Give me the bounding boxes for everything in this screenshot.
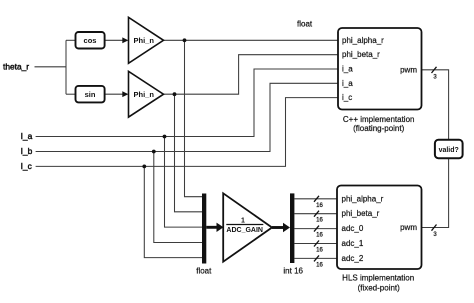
svg-text:valid?: valid? bbox=[439, 147, 459, 154]
wire riser I_a to bus bbox=[165, 137, 203, 228]
wire phi_alpha_r rail U1 out to C++ box bbox=[164, 39, 339, 41]
svg-text:i_a: i_a bbox=[342, 79, 353, 88]
svg-text:phi_alpha_r: phi_alpha_r bbox=[342, 194, 384, 203]
arrowhead into U1 bbox=[122, 37, 128, 43]
svg-text:I_a: I_a bbox=[21, 131, 33, 141]
block cos bbox=[76, 32, 105, 49]
svg-text:ADC_GAIN: ADC_GAIN bbox=[226, 227, 263, 234]
bus width slash C++ pwm bbox=[432, 67, 437, 73]
block sin bbox=[76, 86, 105, 103]
svg-text:Phi_n: Phi_n bbox=[134, 90, 155, 99]
bus width slash 16 wire5 bbox=[314, 255, 319, 261]
svg-text:phi_beta_r: phi_beta_r bbox=[342, 209, 380, 218]
svg-text:1: 1 bbox=[241, 217, 245, 224]
wire riser U1 out to bus bbox=[185, 40, 203, 196]
svg-text:I_c: I_c bbox=[21, 161, 32, 171]
bus width slash 16 wire4 bbox=[314, 241, 319, 247]
op-amp U2 Phi_n bbox=[129, 71, 164, 117]
junction I_b bbox=[152, 150, 156, 154]
node theta_r branch bbox=[65, 40, 67, 94]
wire bus to HLS phi_alpha_r bbox=[294, 198, 337, 200]
wire sin to U2 bbox=[105, 93, 124, 95]
thick arrow bus to U5 bbox=[206, 226, 217, 229]
svg-text:I_b: I_b bbox=[21, 146, 33, 156]
svg-text:pwm: pwm bbox=[400, 223, 417, 232]
arrowhead into U2 bbox=[122, 91, 128, 97]
svg-text:adc_0: adc_0 bbox=[342, 224, 364, 233]
wire C++ pwm to valid bbox=[422, 70, 449, 140]
wire I_b bbox=[36, 83, 338, 151]
bus bar right (int16 bus) bbox=[290, 193, 294, 263]
svg-text:(floating-point): (floating-point) bbox=[353, 124, 404, 133]
block U4 HLS implementation bbox=[337, 186, 422, 270]
svg-text:Phi_n: Phi_n bbox=[134, 36, 155, 45]
amp U5 1/ADC_GAIN bbox=[223, 193, 272, 261]
svg-text:sin: sin bbox=[85, 90, 96, 99]
block valid? bbox=[435, 140, 463, 158]
svg-text:adc_2: adc_2 bbox=[342, 254, 364, 263]
wire bus to HLS adc_1 bbox=[294, 243, 337, 245]
wire bus to HLS phi_beta_r bbox=[294, 213, 337, 215]
bus bar left (float bus) bbox=[202, 194, 206, 264]
block U3 C++ implementation bbox=[338, 28, 422, 110]
svg-text:16: 16 bbox=[316, 262, 323, 268]
svg-text:int 16: int 16 bbox=[283, 267, 303, 276]
svg-text:16: 16 bbox=[316, 218, 323, 224]
svg-text:16: 16 bbox=[316, 248, 323, 254]
junction U2 output bbox=[173, 92, 177, 96]
op-amp U1 Phi_n bbox=[129, 17, 164, 63]
svg-text:i_a: i_a bbox=[342, 65, 353, 74]
junction I_c bbox=[142, 165, 146, 169]
wire I_a bbox=[36, 69, 338, 137]
wire branch to cos bbox=[66, 39, 76, 41]
svg-text:float: float bbox=[196, 267, 212, 276]
bus width slash 16 wire1 bbox=[314, 196, 319, 202]
wire branch to sin bbox=[66, 93, 76, 95]
wire bus to HLS adc_2 bbox=[294, 257, 337, 259]
wire HLS pwm to valid bbox=[422, 158, 449, 227]
svg-text:adc_1: adc_1 bbox=[342, 239, 364, 248]
svg-text:theta_r: theta_r bbox=[3, 61, 29, 71]
svg-text:phi_beta_r: phi_beta_r bbox=[342, 50, 380, 59]
wire I_c bbox=[36, 98, 338, 167]
svg-text:i_c: i_c bbox=[342, 93, 352, 102]
wire riser I_c to bus bbox=[144, 166, 202, 257]
thick arrow U5 to bus bbox=[272, 226, 284, 229]
svg-text:phi_alpha_r: phi_alpha_r bbox=[342, 36, 384, 45]
bus width slash 16 wire3 bbox=[314, 226, 319, 232]
svg-text:16: 16 bbox=[316, 233, 323, 239]
wire riser I_b to bus bbox=[154, 152, 202, 243]
wire U2 out phi_beta_r bbox=[164, 55, 339, 94]
bus width slash HLS pwm bbox=[432, 225, 437, 231]
bus width slash 16 wire2 bbox=[314, 211, 319, 217]
wire riser U2 out to bus bbox=[175, 94, 203, 212]
svg-text:HLS implementation: HLS implementation bbox=[342, 273, 414, 282]
wire bus to HLS adc_0 bbox=[294, 228, 337, 230]
svg-text:pwm: pwm bbox=[400, 65, 417, 74]
svg-text:3: 3 bbox=[433, 232, 437, 238]
junction U1 output bbox=[183, 38, 187, 42]
svg-text:float: float bbox=[297, 20, 313, 29]
svg-text:C++ implementation: C++ implementation bbox=[343, 115, 415, 124]
wire cos to U1 bbox=[105, 39, 124, 41]
svg-text:cos: cos bbox=[84, 36, 97, 45]
svg-text:(fixed-point): (fixed-point) bbox=[358, 284, 401, 293]
wire theta_r bbox=[35, 66, 67, 68]
svg-text:16: 16 bbox=[316, 203, 323, 209]
svg-text:3: 3 bbox=[433, 75, 437, 81]
junction I_a bbox=[163, 135, 167, 139]
